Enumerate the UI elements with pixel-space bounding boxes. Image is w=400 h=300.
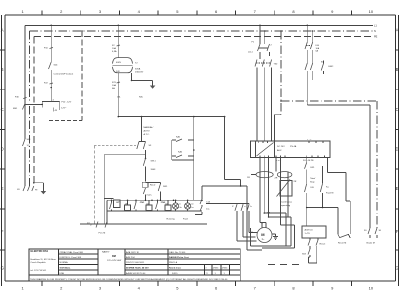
svg-text:1R: 1R	[247, 177, 250, 179]
svg-text:Fault: Fault	[183, 218, 188, 221]
coil group CN1	[134, 200, 152, 211]
svg-text:KONTROL. Pavel 308: KONTROL. Pavel 308	[60, 257, 82, 259]
fuse F22	[44, 83, 53, 102]
outer border left	[4, 15, 6, 281]
svg-text:NORMA: NORMA	[60, 261, 69, 264]
outer border right	[394, 15, 396, 281]
svg-text:Rated draw: Rated draw	[169, 267, 181, 270]
svg-text:2R: 2R	[275, 178, 278, 180]
title block text	[31, 250, 228, 275]
svg-text:Continuous: Continuous	[281, 201, 293, 204]
svg-text:D: D	[1, 147, 4, 152]
svg-text:24V: 24V	[116, 71, 120, 73]
svg-text:'Start': 'Start'	[310, 177, 316, 180]
svg-text:E: E	[1, 186, 4, 191]
svg-text:AVMWB TA2/C 44 05V: AVMWB TA2/C 44 05V	[126, 267, 149, 270]
svg-text:DA2HB Pb-ba Cost: DA2HB Pb-ba Cost	[169, 256, 189, 259]
outer border top	[5, 14, 396, 16]
svg-text:AZA 102V 1F: AZA 102V 1F	[126, 251, 140, 254]
power supply box	[251, 139, 331, 162]
svg-text:DC 24V: DC 24V	[277, 146, 285, 148]
svg-text:1Q: 1Q	[27, 145, 30, 147]
contact DN1 branch	[146, 183, 169, 201]
right ruler line	[398, 15, 400, 286]
svg-text:E: E	[396, 186, 399, 191]
svg-text:2R: 2R	[294, 181, 297, 183]
svg-text:Q1,1: Q1,1	[248, 52, 254, 54]
svg-text:10: 10	[369, 285, 374, 290]
svg-text:operating: operating	[281, 204, 291, 207]
svg-text:DWG: DWG	[222, 268, 228, 270]
wire into PSU from left	[25, 104, 43, 106]
svg-text:A.T.C.: A.T.C.	[144, 133, 150, 136]
aux box	[268, 226, 326, 265]
top ruler ticks	[42, 11, 352, 15]
outer border bottom	[5, 280, 396, 282]
svg-text:PS 4A: PS 4A	[290, 145, 297, 148]
brake contacts	[364, 228, 382, 245]
node L1 tap x51	[50, 25, 52, 27]
svg-text:DN1: DN1	[163, 186, 168, 188]
right routing wires	[281, 101, 377, 228]
switch EF1 under box	[305, 158, 317, 208]
contacts C14	[195, 186, 211, 215]
fuse F40	[15, 97, 27, 99]
svg-text:A: A	[1, 28, 4, 33]
svg-text:Fault M: Fault M	[326, 192, 333, 195]
svg-text:DWG: DWG	[213, 268, 219, 270]
svg-text:P05/V7V 600/1011: P05/V7V 600/1011	[126, 262, 145, 264]
svg-text:G: G	[1, 266, 4, 271]
wire to ground bottom-left	[33, 182, 43, 192]
svg-text:Hradilova 11, 612 00 Brno: Hradilova 11, 612 00 Brno	[31, 258, 57, 261]
svg-text:DM: DM	[112, 255, 116, 258]
coil group CN2	[156, 200, 172, 211]
svg-text:Running: Running	[167, 219, 176, 221]
left ruler letter ticks	[0, 50, 5, 250]
rheostat continuous	[277, 180, 293, 208]
svg-text:C: C	[395, 107, 398, 112]
bottom ruler numbers	[21, 285, 373, 290]
svg-text:Control 45/F lockout: Control 45/F lockout	[54, 73, 74, 76]
svg-text:Rot.0: Rot.0	[150, 184, 156, 187]
PLC contacts	[90, 221, 107, 235]
fuse F2	[112, 45, 120, 58]
svg-text:G: G	[395, 266, 398, 271]
switch S1 two-pole	[94, 117, 152, 149]
ground bottom-left	[41, 191, 47, 194]
svg-text:Czech Republic: Czech Republic	[31, 262, 47, 264]
ferrite ring 2	[262, 158, 297, 249]
svg-text:EMC: EMC	[329, 66, 334, 68]
motor loop wiring	[247, 213, 291, 250]
PSU box 4F	[42, 100, 72, 113]
control bus horizontal	[118, 116, 241, 186]
svg-text:PE: PE	[374, 36, 378, 39]
motor M	[250, 228, 272, 243]
contacts X a b	[206, 204, 258, 242]
thermostat Rot.0	[142, 182, 156, 200]
ferrite ring 1	[247, 158, 278, 223]
svg-text:Stop: Stop	[310, 181, 315, 184]
svg-text:D: D	[395, 147, 398, 152]
svg-text:CN1: CN1	[140, 202, 145, 204]
contactor K60	[305, 61, 334, 106]
left ruler letters	[1, 28, 4, 271]
fuse F10	[44, 48, 53, 63]
svg-text:230/24V: 230/24V	[135, 72, 144, 74]
svg-text:10: 10	[369, 9, 374, 14]
svg-text:N: N	[374, 30, 376, 33]
small box left-mid	[104, 199, 120, 208]
left feed wires	[94, 146, 145, 224]
svg-text:Reset: Reset	[320, 243, 326, 246]
node L1 tap T2	[118, 25, 120, 27]
contact Ka Fault M	[306, 166, 338, 234]
coil bus top	[107, 200, 203, 212]
svg-text:1+TD: 1+TD	[305, 233, 311, 235]
wire	[50, 25, 52, 48]
manual auto text	[144, 126, 154, 136]
svg-text:10A: 10A	[112, 84, 116, 87]
svg-text:34/15: 34/15	[172, 273, 178, 275]
svg-text:THIS DRAWING IS OUR PROPERTY,: THIS DRAWING IS OUR PROPERTY, IT MUST NO…	[30, 278, 228, 281]
svg-text:C: C	[1, 107, 4, 112]
contactor T30	[255, 60, 278, 142]
switch SW1	[143, 150, 156, 182]
svg-text:DNE: DNE	[60, 273, 65, 275]
node L1 tap Q1	[259, 25, 261, 27]
svg-text:tel. 123 716 501: tel. 123 716 501	[31, 269, 47, 272]
svg-text:PLC M: PLC M	[99, 233, 106, 235]
svg-text:6,3A: 6,3A	[112, 50, 117, 53]
rail L1	[25, 25, 377, 136]
breaker Q1	[248, 42, 273, 60]
bottom ruler ticks	[42, 281, 352, 286]
lamp Running	[167, 200, 182, 220]
svg-text:AUX: AUX	[277, 149, 282, 152]
svg-text:AUTO: AUTO	[144, 130, 150, 133]
secondary left lead + fuse F23	[112, 73, 144, 117]
motor feeds	[264, 212, 292, 218]
rail N (dash-dot)	[30, 30, 377, 186]
svg-text:B: B	[1, 67, 4, 72]
switch M01	[13, 104, 25, 111]
svg-text:wn: wn	[191, 204, 193, 206]
left ruler line	[1, 15, 3, 286]
svg-text:Gn: Gn	[179, 207, 181, 209]
svg-text:+ - +: + - +	[307, 139, 312, 141]
svg-text:1ZV~: 1ZV~	[61, 108, 67, 110]
svg-text:Brake M: Brake M	[367, 242, 375, 245]
staircase wire right	[328, 158, 351, 235]
svg-text:F: F	[396, 229, 399, 234]
svg-text:F10 - 1ZV: F10 - 1ZV	[62, 102, 72, 104]
wire arrowheads	[261, 212, 270, 225]
svg-text:50VA: 50VA	[135, 68, 141, 71]
svg-text:N L+ M PE: N L+ M PE	[303, 160, 314, 162]
coil group KT1	[110, 200, 131, 211]
svg-text:ELEKTRO DS1: ELEKTRO DS1	[31, 250, 49, 253]
svg-text:Reset M: Reset M	[338, 242, 346, 245]
title block	[29, 249, 240, 281]
svg-text:F: F	[1, 229, 4, 234]
secondary right lead to ground	[131, 73, 153, 86]
svg-text:MANUAL/: MANUAL/	[144, 126, 154, 129]
svg-text:A2B P04: A2B P04	[126, 256, 135, 259]
right ruler letter ticks	[395, 50, 398, 250]
svg-text:ZPRACOVAL Pavel 308: ZPRACOVAL Pavel 308	[60, 251, 84, 254]
wire	[117, 25, 119, 45]
coil bus bottom	[107, 210, 202, 212]
svg-text:NAZEV: NAZEV	[102, 250, 110, 253]
terminal contacts bottom-left	[17, 186, 34, 191]
reset contact	[338, 234, 350, 245]
relay branch KA1/KA2	[172, 117, 195, 200]
svg-text:CALL No: TL300: CALL No: TL300	[169, 251, 186, 254]
svg-text:400V: 400V	[116, 62, 122, 64]
switch S04	[49, 62, 59, 83]
transformer T2	[113, 58, 144, 74]
svg-text:A4MB 501/31/70 44: A4MB 501/31/70 44	[126, 272, 146, 275]
svg-text:10A: 10A	[112, 47, 116, 50]
svg-text:B: B	[396, 67, 399, 72]
N dashdot drop right	[275, 30, 282, 141]
rail PE (dashed)	[34, 36, 378, 186]
right ruler letters	[395, 28, 398, 271]
svg-text:350F: 350F	[151, 169, 157, 171]
wire mid link	[202, 185, 247, 250]
breaker column F60 right	[305, 25, 320, 64]
svg-text:DB: DB	[311, 187, 315, 189]
top ruler numbers	[21, 9, 373, 14]
svg-text:SCHVALIL: SCHVALIL	[60, 267, 71, 270]
dashed enclosure box top-left	[49, 30, 83, 120]
lamp Fault	[183, 200, 194, 220]
svg-text:AUX DL/: AUX DL/	[305, 229, 314, 232]
motor ground	[272, 234, 278, 240]
svg-text:PBVO A: PBVO A	[169, 261, 178, 264]
svg-text:12V+24V 50W: 12V+24V 50W	[107, 260, 122, 262]
lower bus	[80, 211, 207, 225]
svg-text:A: A	[396, 28, 399, 33]
svg-text:mom.: mom.	[147, 195, 153, 197]
ground arrow T2	[150, 86, 156, 89]
svg-text:SW.1: SW.1	[151, 161, 157, 163]
switch Q01 on L1 drop	[23, 135, 32, 186]
node N tap	[264, 30, 266, 32]
